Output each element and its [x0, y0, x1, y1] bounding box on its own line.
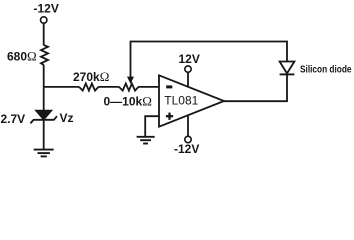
svg-text:12V: 12V — [179, 52, 200, 66]
svg-text:270kΩ: 270kΩ — [73, 69, 109, 84]
svg-text:TL081: TL081 — [164, 94, 198, 108]
svg-text:2.7V: 2.7V — [1, 112, 26, 126]
svg-text:-12V: -12V — [174, 142, 199, 156]
svg-text:680Ω: 680Ω — [7, 49, 37, 64]
svg-text:Vz: Vz — [60, 111, 74, 125]
svg-text:0—10kΩ: 0—10kΩ — [104, 94, 152, 109]
svg-text:-12V: -12V — [34, 2, 59, 16]
svg-text:Silicon diode: Silicon diode — [300, 65, 352, 76]
